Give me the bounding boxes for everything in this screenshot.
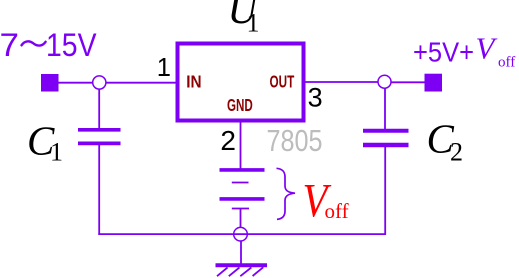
node A (input junction) bbox=[93, 76, 106, 89]
offset battery Voff bbox=[220, 170, 265, 209]
svg-text:1: 1 bbox=[157, 54, 171, 82]
label Voff (offset voltage) bbox=[303, 173, 349, 227]
svg-text:OUT: OUT bbox=[270, 72, 295, 92]
svg-text:1: 1 bbox=[247, 9, 260, 38]
label C1 bbox=[27, 118, 63, 167]
svg-text:2: 2 bbox=[450, 138, 463, 167]
wire node C down to ground bbox=[240, 241, 242, 264]
wire node A down to C1 bbox=[98, 89, 100, 129]
regulator U1 box bbox=[178, 44, 304, 121]
node B (output junction) bbox=[378, 75, 391, 88]
svg-text:+5V+: +5V+ bbox=[413, 36, 474, 67]
svg-text:GND: GND bbox=[227, 95, 253, 115]
svg-text:7: 7 bbox=[0, 27, 19, 63]
label C2 bbox=[427, 116, 464, 167]
wire C1 down to bottom rail bbox=[98, 145, 100, 235]
svg-text:7805: 7805 bbox=[267, 124, 323, 158]
capacitor C1 bbox=[78, 130, 121, 144]
svg-text:1: 1 bbox=[50, 138, 63, 167]
svg-text:off: off bbox=[325, 199, 349, 223]
wire C2 down to bottom rail bbox=[384, 147, 386, 235]
wire node A to IN pin bbox=[106, 82, 176, 84]
ground symbol bbox=[216, 265, 268, 276]
svg-text:3: 3 bbox=[308, 83, 323, 113]
label 7~15V input voltage bbox=[0, 27, 97, 63]
wire node B down to C2 bbox=[384, 88, 386, 129]
wire input square to node A bbox=[59, 82, 93, 84]
wire GND pin 2 down to battery bbox=[240, 122, 242, 169]
wire OUT pin to node B bbox=[305, 81, 379, 83]
label U1 bbox=[228, 0, 260, 38]
svg-text:2: 2 bbox=[220, 125, 236, 156]
wire node B to output square bbox=[391, 81, 426, 83]
svg-text:15V: 15V bbox=[46, 27, 97, 63]
svg-text:IN: IN bbox=[186, 72, 201, 92]
wire battery down to node C bbox=[240, 209, 242, 229]
brace for Voff bbox=[277, 168, 296, 219]
node C (ground junction) bbox=[234, 227, 248, 241]
svg-text:V: V bbox=[476, 31, 498, 66]
bottom rail wire bbox=[98, 233, 386, 235]
label +5V+Voff output voltage bbox=[413, 31, 515, 71]
capacitor C2 bbox=[363, 131, 409, 145]
input terminal square bbox=[41, 74, 59, 92]
svg-text:off: off bbox=[498, 54, 515, 70]
output terminal square bbox=[425, 74, 443, 92]
